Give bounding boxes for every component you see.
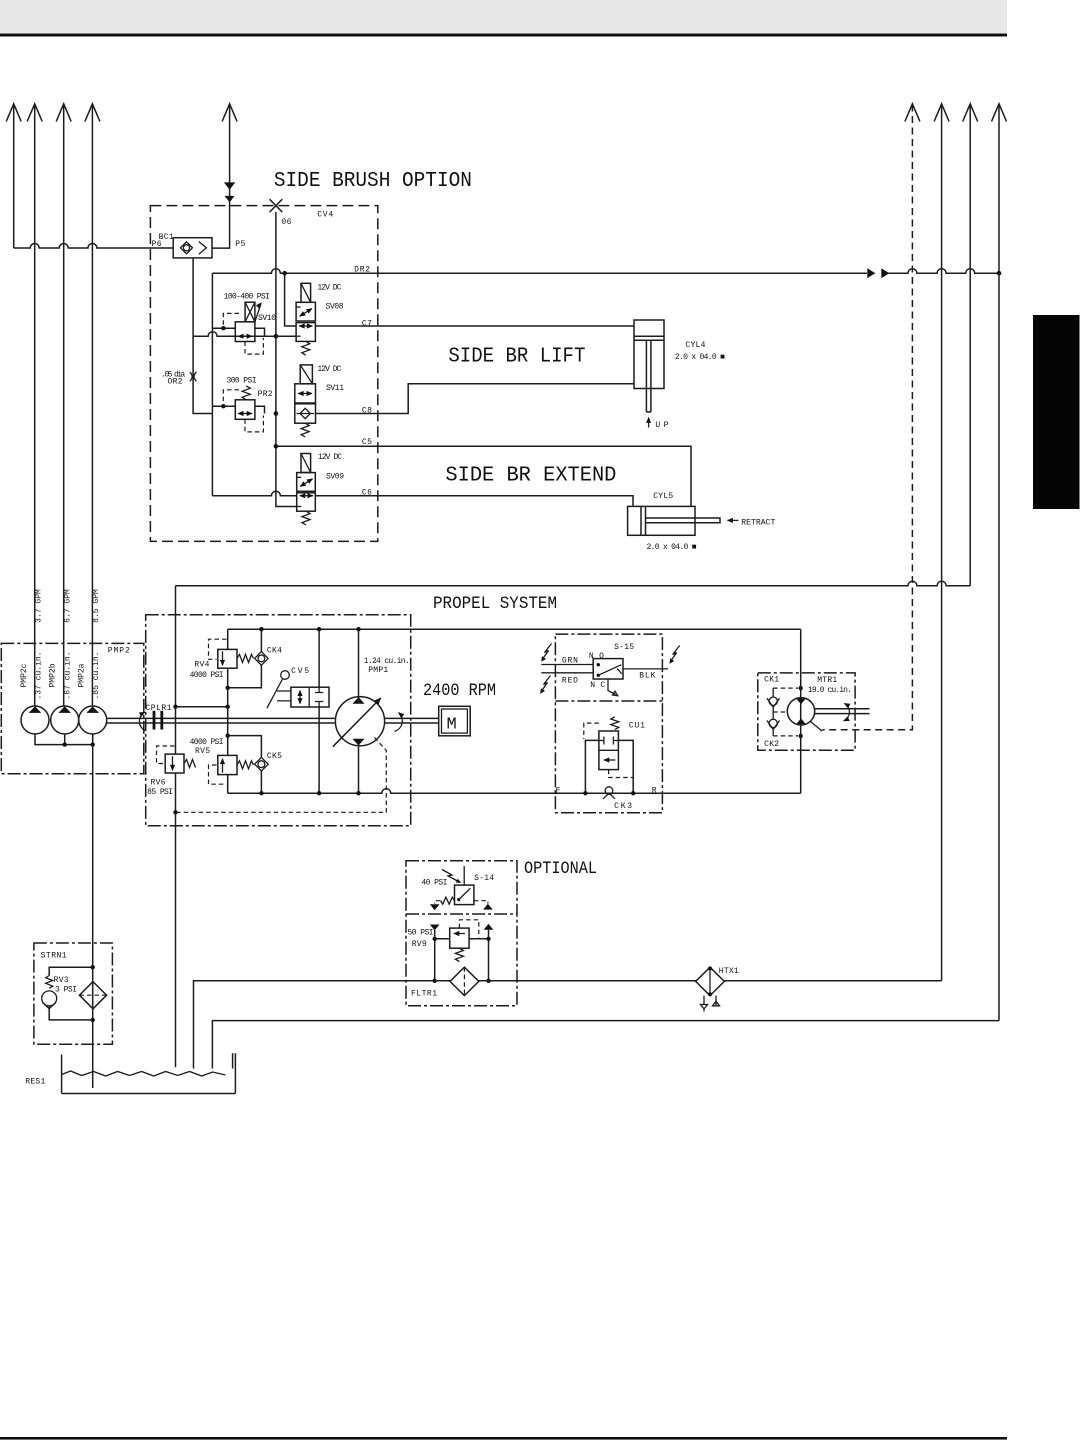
node pilot SV10: [221, 326, 225, 330]
wire P5 riser: [212, 105, 230, 249]
reservoir RES1: [62, 1053, 236, 1093]
port arrow P5 top: [222, 104, 237, 122]
svg-text:50 PSI: 50 PSI: [408, 929, 434, 938]
port arrow B1: [905, 104, 920, 122]
wire pump line A3: [63, 105, 65, 707]
node RV3 top: [91, 965, 95, 969]
svg-text:PR2: PR2: [258, 390, 273, 399]
svg-text:300 PSI: 300 PSI: [227, 377, 257, 386]
svg-text:GRN: GRN: [562, 657, 578, 666]
filter FLTR1: [450, 967, 479, 995]
svg-text:PROPEL SYSTEM: PROPEL SYSTEM: [433, 594, 557, 614]
wire pump line A2: [34, 105, 36, 707]
air symbol HTX1 left: [701, 996, 708, 1012]
coupler CPLR1: [153, 711, 164, 730]
wire riser B3: [969, 105, 971, 586]
relief valve RV6: [165, 754, 195, 773]
svg-text:4000 PSI: 4000 PSI: [190, 738, 224, 747]
node RV3 bottom: [91, 1018, 95, 1022]
node charge link left: [173, 705, 177, 709]
tank symbol S-14 left: [430, 904, 440, 910]
pilot dashed CU1 left: [584, 723, 599, 739]
wire return riser B4: [998, 105, 1000, 1021]
svg-text:12V DC: 12V DC: [318, 453, 342, 462]
svg-text:4000 PSI: 4000 PSI: [190, 671, 224, 680]
svg-text:3 PSI: 3 PSI: [55, 986, 77, 995]
node charge link right: [226, 705, 230, 709]
heat exchanger HTX1: [696, 967, 725, 997]
wire drain into tank: [175, 1066, 177, 1068]
node CK4 top: [259, 627, 263, 631]
wire suction drop: [92, 745, 94, 1088]
shaft right: [385, 718, 439, 723]
svg-text:40 PSI: 40 PSI: [421, 879, 447, 888]
node DR2 feeder: [282, 271, 287, 276]
arrow UP: [648, 418, 650, 428]
wire work line bottom: [228, 789, 801, 793]
wire BC1 drop: [193, 258, 212, 414]
wire BLK: [623, 668, 668, 670]
node 06-C8: [274, 411, 279, 416]
node collector right: [91, 742, 95, 746]
wire level1 to SV10: [212, 327, 235, 329]
wire RV9 right leg: [488, 930, 490, 981]
port arrow A2: [27, 104, 42, 122]
strainer STRN1 box: [34, 943, 113, 1044]
svg-text:RV5: RV5: [195, 747, 210, 756]
pressure symbol S-14 right: [483, 904, 493, 910]
wire pump suction collector: [35, 734, 93, 745]
lightning GRN: [541, 644, 551, 662]
node CK2 tap: [799, 734, 803, 738]
svg-text:CV5: CV5: [291, 667, 309, 676]
node pump top: [356, 627, 360, 631]
svg-text:SIDE BRUSH OPTION: SIDE BRUSH OPTION: [274, 170, 472, 193]
pressure switch S-14: [455, 866, 474, 905]
side tab: [1033, 315, 1080, 509]
header grey bar: [0, 0, 1007, 33]
svg-text:SIDE BR EXTEND: SIDE BR EXTEND: [445, 464, 616, 487]
svg-text:CK5: CK5: [267, 752, 282, 761]
svg-text:SV08: SV08: [326, 302, 344, 311]
svg-text:06: 06: [281, 218, 291, 227]
rotation arc left: [139, 712, 145, 731]
svg-text:PMP2: PMP2: [108, 647, 130, 656]
node RV9 right: [486, 937, 490, 941]
pump group PMP2 box: [1, 643, 144, 773]
svg-text:RV6: RV6: [151, 779, 166, 788]
node CU1 right: [631, 791, 635, 795]
svg-text:2400 RPM: 2400 RPM: [423, 681, 496, 701]
cylinder CYL5: [628, 506, 720, 535]
svg-text:PMP2a: PMP2a: [78, 663, 87, 687]
node DR2-B4: [997, 271, 1002, 276]
svg-text:8.5 GPM: 8.5 GPM: [92, 589, 101, 623]
svg-text:CPLR1: CPLR1: [146, 704, 172, 713]
wire C7: [315, 325, 634, 327]
pilot dashed PR2: [223, 390, 239, 405]
motor MTR1 box: [758, 673, 855, 750]
svg-text:RV4: RV4: [194, 661, 209, 670]
wire RV9 left leg: [434, 930, 436, 981]
port arrow A1: [6, 104, 21, 248]
svg-text:CYL5: CYL5: [653, 492, 673, 501]
svg-text:CK3: CK3: [614, 802, 632, 811]
svg-text:PMP2b: PMP2b: [48, 663, 57, 687]
pressure symbol RV9 right: [484, 924, 494, 930]
svg-text:2.0 x 04.0 ■: 2.0 x 04.0 ■: [647, 543, 697, 552]
svg-text:SIDE BR LIFT: SIDE BR LIFT: [448, 345, 585, 368]
node RV9 left: [433, 937, 437, 941]
port arrow A3: [56, 104, 71, 122]
svg-text:SV09: SV09: [326, 473, 344, 482]
divider S-15 box: [555, 700, 662, 702]
svg-text:RES1: RES1: [25, 1077, 45, 1086]
rotation arc motor: [844, 703, 850, 721]
wire case drain trunk: [175, 586, 177, 1067]
pilot dashed RV4: [209, 639, 227, 659]
relief valve SV10: [235, 302, 262, 341]
svg-text:DR2: DR2: [354, 266, 370, 275]
svg-text:R: R: [652, 786, 657, 795]
svg-text:MTR1: MTR1: [817, 676, 837, 685]
relief valve RV3 bypass: [42, 967, 93, 1020]
air symbol HTX1 right: [713, 996, 720, 1006]
wire RED: [541, 672, 593, 674]
pressure reducing valve PR2: [235, 386, 255, 419]
wire pump line A4: [91, 105, 93, 707]
svg-text:2.0 x 04.0 ■: 2.0 x 04.0 ■: [675, 353, 725, 362]
svg-text:PMP2c: PMP2c: [20, 663, 29, 687]
rotation arc right: [395, 713, 403, 732]
footer rule: [0, 1437, 1007, 1440]
wire bus-212: [212, 273, 296, 496]
check valve CK2: [767, 712, 798, 736]
wire P6 header: [14, 244, 174, 249]
svg-text:CU1: CU1: [629, 721, 645, 730]
check valve CK3: [603, 787, 615, 799]
svg-text:19.0 cu.in.: 19.0 cu.in.: [808, 686, 852, 695]
node CU1 left: [583, 791, 587, 795]
port arrow B2: [934, 104, 949, 122]
wire C8: [316, 384, 635, 414]
wire motor leg right: [800, 629, 802, 793]
arrow RETRACT: [728, 519, 739, 521]
solenoid valve SV08: [296, 283, 315, 355]
svg-text:S-15: S-15: [614, 643, 634, 652]
optional box: [406, 861, 517, 1006]
node bus-CK4: [226, 686, 230, 690]
strainer STRN1: [79, 982, 106, 1009]
svg-text:12V DC: 12V DC: [317, 365, 341, 374]
wire RV9 cross: [435, 938, 489, 940]
wire GRN: [541, 664, 593, 666]
node mid top: [317, 627, 321, 631]
svg-text:3.7 GPM: 3.7 GPM: [35, 589, 44, 623]
check valve BC1: [173, 238, 212, 258]
wire supply level2: [193, 332, 296, 337]
motor shaft: [815, 709, 870, 714]
svg-text:CYL4: CYL4: [685, 341, 705, 350]
motor MTR1: [787, 698, 814, 725]
optional box divider: [406, 913, 517, 915]
wire charge link: [176, 706, 228, 708]
check valve CV4 (closed cross): [270, 199, 283, 212]
node collector: [62, 742, 66, 746]
port arrow B3: [963, 104, 978, 122]
pilot dashed CU1 right: [609, 770, 634, 788]
node CK5 bottom: [259, 791, 263, 795]
arrowheads DR2: [867, 268, 889, 278]
shaft left: [107, 718, 335, 723]
pump PMP2a: [79, 706, 107, 734]
svg-text:OPTIONAL: OPTIONAL: [524, 859, 597, 879]
check valve CK5: [228, 736, 269, 794]
node FLTR1 left: [433, 979, 437, 983]
cylinder CYL4: [634, 320, 664, 412]
tank symbol RV9 left: [430, 925, 440, 931]
wire motor case drain: [811, 722, 823, 732]
svg-text:RED: RED: [562, 676, 578, 685]
wire SV10 out elbow: [255, 328, 276, 336]
wire DR2 right: [888, 269, 999, 274]
node CK1 tap: [799, 686, 803, 690]
lightning S-14: [442, 870, 461, 884]
svg-text:BC1: BC1: [159, 233, 174, 242]
wire C5: [276, 446, 691, 506]
pump PMP1: [333, 629, 385, 793]
orifice OR2: [190, 372, 197, 381]
svg-text:RV9: RV9: [412, 940, 427, 949]
wire charge supply y586: [176, 581, 971, 586]
svg-text:C7: C7: [362, 319, 372, 328]
switch S-15: [593, 659, 623, 696]
svg-text:12V DC: 12V DC: [317, 283, 341, 292]
wire mid vertical: [318, 629, 320, 793]
svg-text:CV4: CV4: [317, 210, 333, 219]
check valve CK1: [767, 688, 798, 712]
case drain dashed pump: [175, 738, 387, 813]
svg-text:.67 cu.in.: .67 cu.in.: [63, 651, 72, 699]
wire CU1 right leg: [618, 740, 633, 793]
wire node-06 vertical: [276, 212, 297, 507]
lightning RED: [540, 676, 550, 694]
svg-text:RV3: RV3: [54, 976, 69, 985]
check valve CK4: [228, 629, 269, 688]
svg-text:85 PSI: 85 PSI: [147, 788, 173, 797]
spring S-14: [440, 897, 454, 904]
wire work line top: [228, 628, 801, 630]
svg-text:CK1: CK1: [764, 676, 779, 685]
svg-text:CK2: CK2: [764, 740, 779, 749]
wire PR2 level: [212, 405, 235, 407]
relief valve RV9: [450, 928, 469, 961]
wire C6: [315, 496, 633, 507]
node pilot PR2: [221, 404, 225, 408]
svg-text:P5: P5: [235, 240, 245, 249]
svg-text:6.7 GPM: 6.7 GPM: [63, 589, 72, 623]
svg-text:SV10: SV10: [258, 314, 276, 323]
side brush option dashed box: [150, 206, 377, 542]
pilot dashed S-14 left: [435, 901, 441, 904]
svg-text:100-400 PSI: 100-400 PSI: [224, 293, 270, 302]
svg-text:HTX1: HTX1: [719, 967, 739, 976]
node 06-C5: [274, 444, 279, 449]
wire RV bus: [227, 629, 229, 793]
node FLTR1 right: [486, 979, 490, 983]
wire DR2: [212, 269, 867, 274]
svg-text:S-14: S-14: [474, 874, 494, 883]
svg-text:RETRACT: RETRACT: [741, 519, 775, 528]
svg-text:CK4: CK4: [267, 647, 282, 656]
node case drain: [173, 810, 177, 814]
svg-text:SV11: SV11: [326, 384, 344, 393]
wire DR2 feeder SV08: [285, 273, 297, 326]
svg-text:.85 cu.in.: .85 cu.in.: [92, 651, 101, 699]
pilot dashed SV10: [223, 313, 239, 326]
port arrow A4: [85, 104, 100, 122]
pilot dashed RV5: [209, 765, 227, 784]
solenoid valve SV11: [295, 365, 316, 437]
svg-text:PMP1: PMP1: [368, 666, 388, 675]
node mid bottom: [317, 791, 321, 795]
pilot dashed RV9: [459, 920, 478, 938]
svg-text:FLTR1: FLTR1: [411, 990, 437, 999]
node bus-CK5: [226, 733, 230, 737]
svg-text:F: F: [556, 786, 561, 795]
relief valve RV5: [218, 755, 254, 774]
pump PMP2b: [51, 706, 79, 734]
svg-text:UP: UP: [655, 421, 668, 430]
wire dashed case drain riser B1: [822, 105, 912, 730]
lightning BLK: [669, 646, 679, 664]
wire CU1 left leg: [585, 740, 599, 793]
solenoid valve SV09: [297, 454, 316, 526]
pilot dashed RV6: [157, 746, 175, 764]
pump PMP2c: [21, 706, 49, 734]
servo control CV5: [267, 671, 329, 709]
svg-text:.37 cu.in.: .37 cu.in.: [35, 651, 44, 699]
relief valve RV4: [218, 649, 254, 668]
port arrow B4: [992, 104, 1007, 122]
svg-text:OR2: OR2: [168, 377, 183, 386]
quick disconnect P5: [224, 182, 235, 202]
wire return secondary: [212, 1021, 999, 1069]
svg-text:N C: N C: [590, 681, 605, 690]
drain dashed PR2: [245, 416, 263, 432]
svg-text:N O: N O: [589, 652, 604, 661]
pilot dashed S-14 right: [474, 901, 488, 904]
flow control CU1: [599, 717, 619, 770]
switch box S-15: [555, 634, 662, 813]
wire return main: [194, 981, 942, 1069]
wire return riser B2: [941, 105, 943, 981]
motor M box: [439, 706, 471, 736]
svg-text:1.24 cu.in.: 1.24 cu.in.: [364, 657, 410, 666]
drain dashed SV10: [245, 338, 263, 354]
pump PMP1 dashdot box: [146, 615, 411, 826]
node pump bottom: [356, 791, 360, 795]
svg-text:STRN1: STRN1: [41, 952, 67, 961]
header rule: [0, 34, 1007, 37]
node 06-supply: [274, 334, 279, 339]
svg-text:BLK: BLK: [639, 672, 655, 681]
wire PR2 out elbow: [255, 406, 265, 413]
svg-text:M: M: [447, 716, 457, 735]
